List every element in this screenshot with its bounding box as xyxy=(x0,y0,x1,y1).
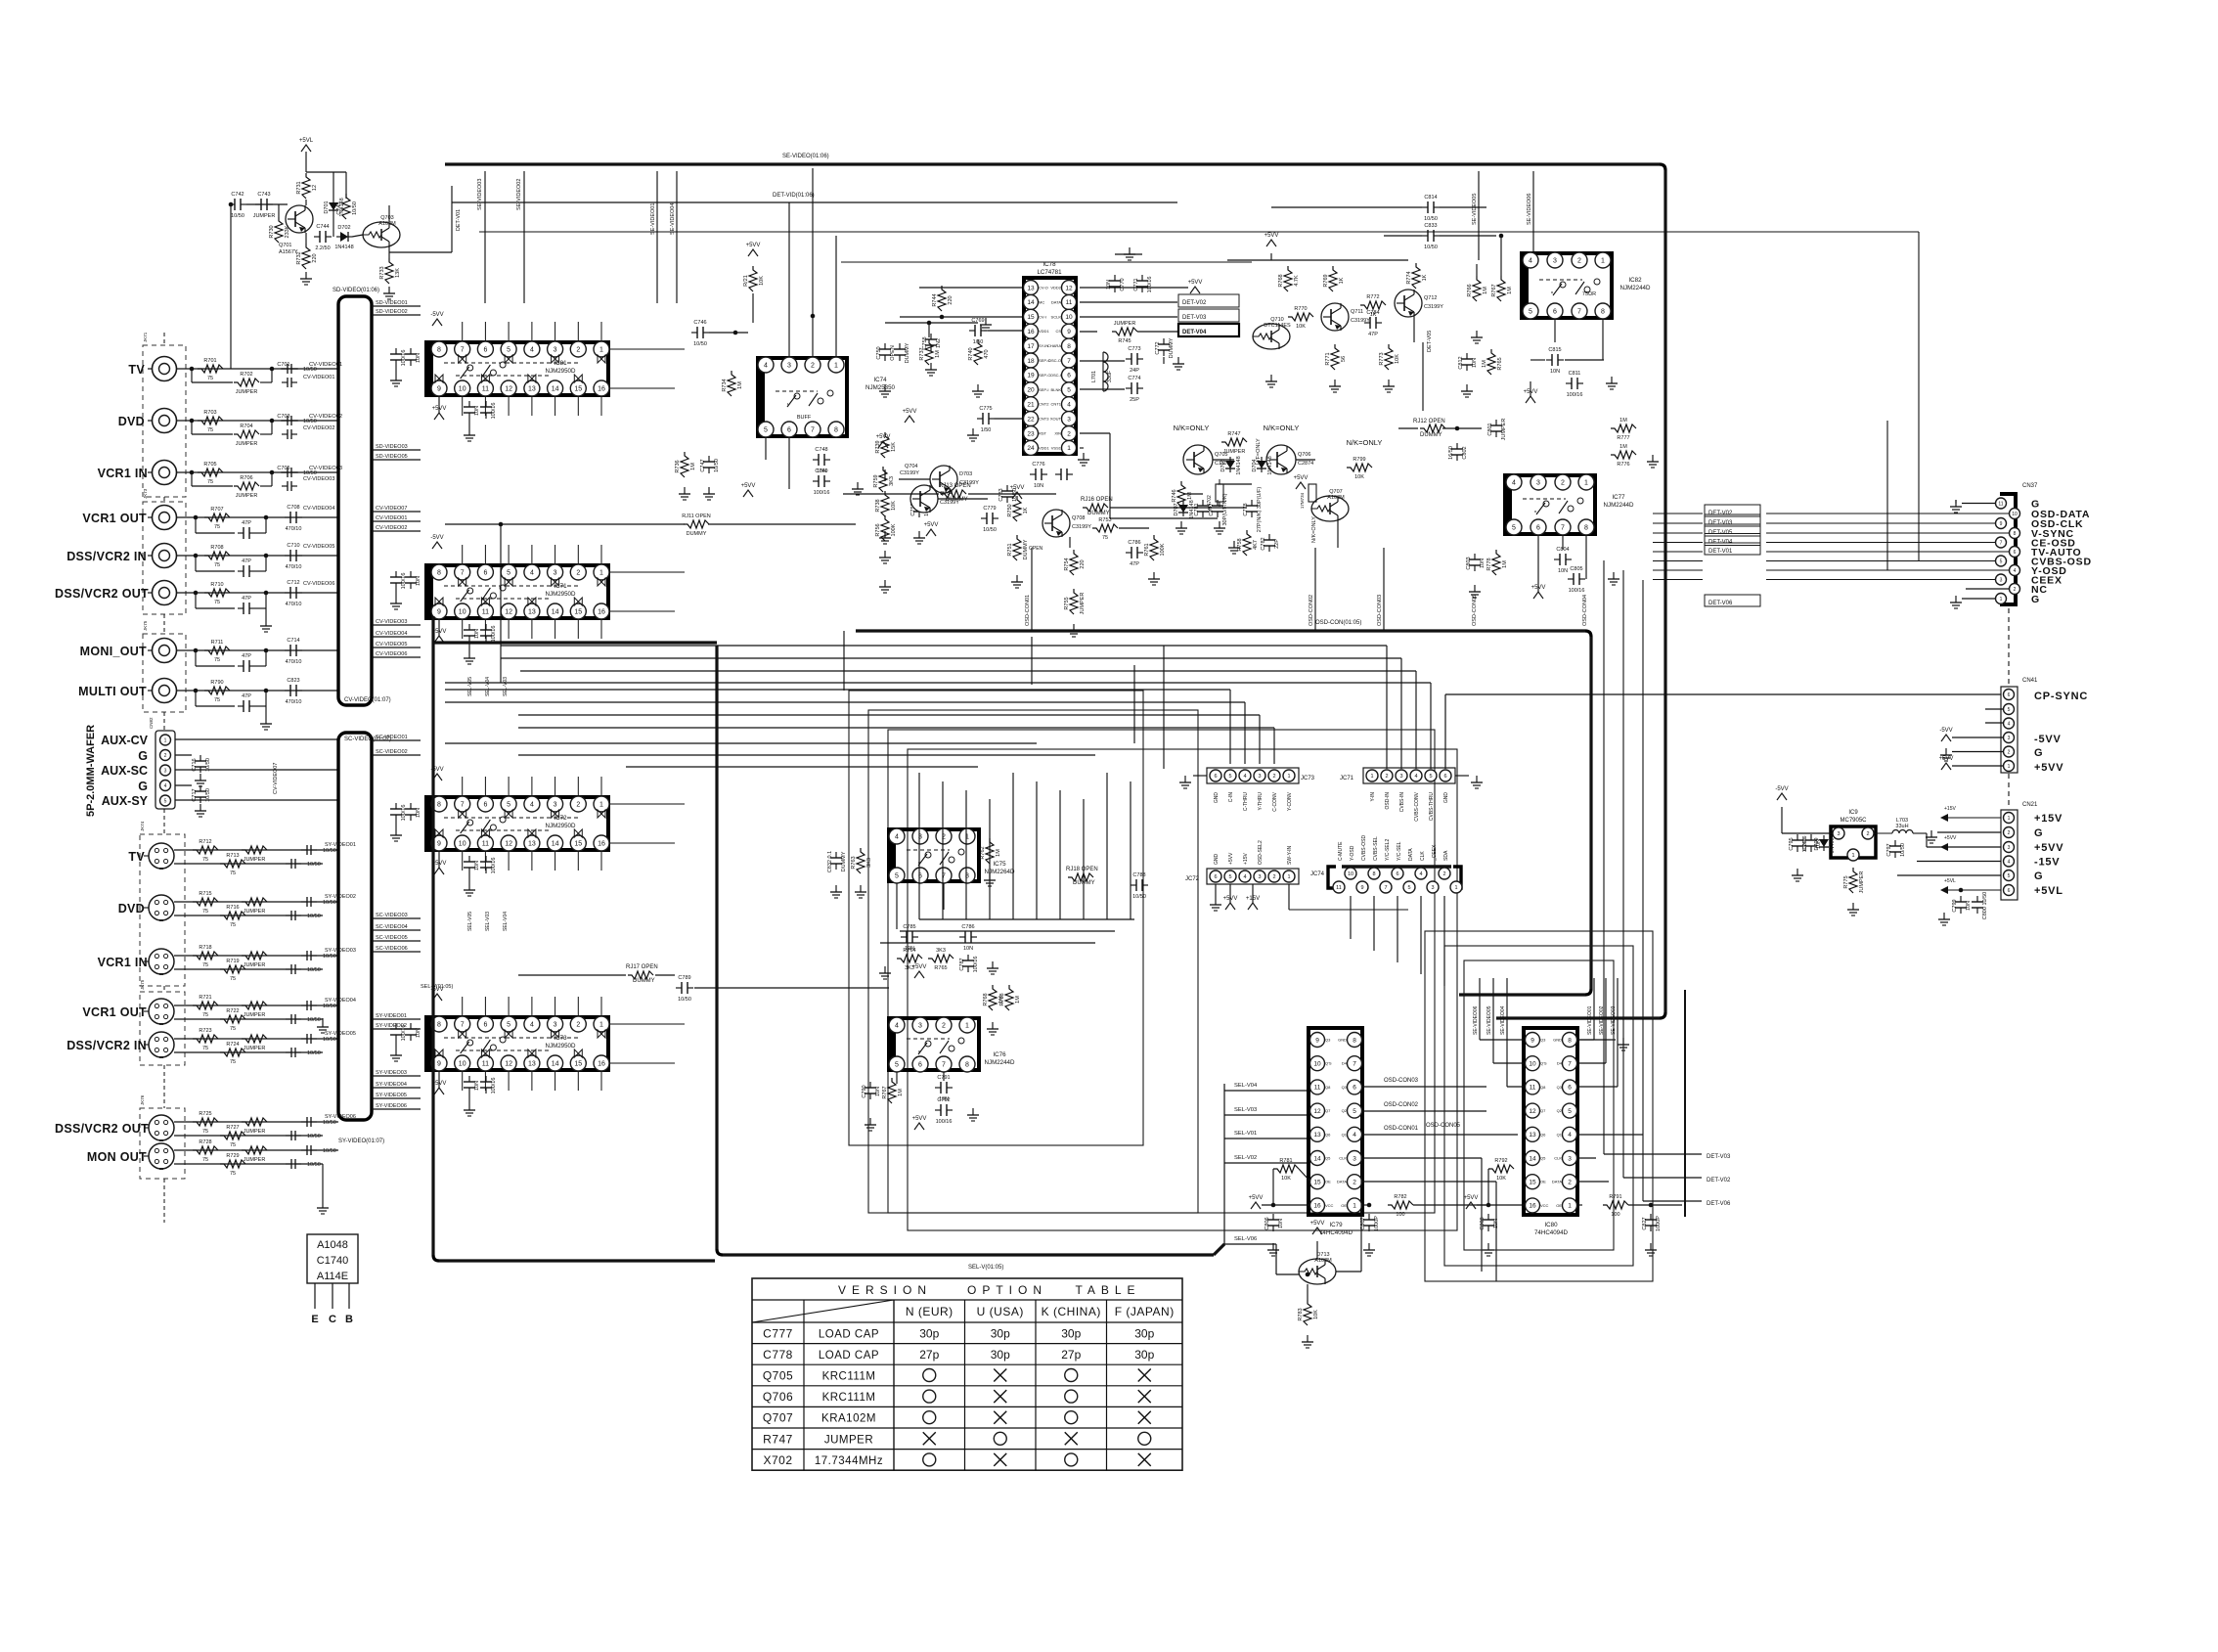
resistor R754 220 xyxy=(1070,550,1078,575)
resistor R778 1M xyxy=(1492,550,1500,575)
svg-text:GND: GND xyxy=(1214,854,1220,866)
capacitor sdssout-C1 xyxy=(286,1135,291,1137)
svg-text:12: 12 xyxy=(505,841,512,848)
svg-text:AUX-SY: AUX-SY xyxy=(102,794,149,808)
wire wq710a xyxy=(1270,253,1272,260)
svg-text:13: 13 xyxy=(528,609,536,616)
table mark X xyxy=(994,1453,1006,1466)
connector S-video JK75-DSSVCR2IN xyxy=(149,1032,174,1057)
wire wcn21b xyxy=(1937,831,2001,833)
ground G805 xyxy=(1613,572,1615,579)
svg-text:C806: C806 xyxy=(1264,1217,1270,1229)
wire ladder 1 xyxy=(942,781,944,919)
capacitor vcr1out-C xyxy=(285,516,290,518)
junction multi-d2 xyxy=(264,689,269,693)
svg-text:R768: R768 xyxy=(983,993,989,1005)
dashed frame JK75 xyxy=(143,634,186,712)
wire wq707a xyxy=(1337,521,1339,548)
loop rect 80a xyxy=(1425,931,1653,1281)
svg-text:4: 4 xyxy=(530,802,534,809)
transistor Q705 C1116 xyxy=(1183,445,1213,474)
capacitor dssin-C xyxy=(285,555,290,557)
wire h952 xyxy=(900,930,1115,932)
svg-text:10/50: 10/50 xyxy=(323,1037,336,1043)
svg-text:6: 6 xyxy=(2008,888,2011,894)
wire stub SD-VIDEO03 xyxy=(372,449,421,451)
resistor stv-Rj xyxy=(242,846,267,854)
svg-text:17.7344MHz: 17.7344MHz xyxy=(815,1455,883,1467)
svg-text:C769: C769 xyxy=(971,318,984,324)
svg-text:7: 7 xyxy=(1577,309,1581,316)
svg-text:R767: R767 xyxy=(1491,284,1497,296)
svg-text:CVBS-OSD: CVBS-OSD xyxy=(1361,834,1367,861)
svg-text:OSC-O: OSC-O xyxy=(1048,358,1061,363)
capacitor C786 10N xyxy=(959,936,965,938)
svg-text:16: 16 xyxy=(1529,1203,1536,1210)
svg-text:TV: TV xyxy=(128,850,145,864)
wire w78-9b xyxy=(1137,331,1177,333)
wire w77d xyxy=(1585,536,1587,579)
wire wx2 xyxy=(1110,517,1218,519)
capacitor C784 47P xyxy=(1364,322,1370,324)
svg-text:6: 6 xyxy=(2014,550,2017,556)
wire w77c xyxy=(1562,536,1564,550)
svg-text:4: 4 xyxy=(2014,568,2017,574)
junction vcr1out-d2 xyxy=(264,515,269,520)
svg-text:10N: 10N xyxy=(1472,358,1478,368)
diode D707 1N4148 xyxy=(1182,501,1184,516)
capacitor C777 30P xyxy=(1217,500,1219,506)
capacitor stv-C2 xyxy=(301,849,307,851)
wire w79q3 xyxy=(1361,1086,1486,1088)
svg-text:R750: R750 xyxy=(1007,504,1013,516)
svg-text:+5VV: +5VV xyxy=(1249,1195,1264,1201)
svg-text:1: 1 xyxy=(1851,853,1854,859)
svg-text:1: 1 xyxy=(1454,885,1457,891)
wire stub CV-VIDEO06 xyxy=(372,656,421,658)
svg-text:IC76: IC76 xyxy=(993,1051,1006,1058)
capacitor vcr1in-C1 xyxy=(282,471,288,473)
wire wcn41a xyxy=(1952,737,2003,738)
wire se80 SE-VIDEO03 xyxy=(1617,978,1619,1087)
connector CN82 wafer xyxy=(155,731,175,809)
wire w79oe4 xyxy=(1413,1204,1486,1206)
wire DET-VID bus xyxy=(452,201,1177,203)
pin 1 IC71 xyxy=(594,564,609,580)
svg-text:JUMPER: JUMPER xyxy=(244,1046,266,1051)
svg-text:75: 75 xyxy=(202,857,208,863)
pin 4 IC76 xyxy=(889,1017,905,1033)
svg-text:MON OUT: MON OUT xyxy=(87,1150,147,1164)
junction dssout-d1 xyxy=(194,591,199,596)
svg-text:C785: C785 xyxy=(903,924,915,930)
svg-text:2: 2 xyxy=(576,570,580,577)
svg-text:SD-VIDEO03: SD-VIDEO03 xyxy=(376,444,408,450)
svg-text:SC-VIDEO01: SC-VIDEO01 xyxy=(376,735,408,740)
svg-text:SY-VIDEO03: SY-VIDEO03 xyxy=(325,948,356,954)
svg-text:SE-VIDEO06: SE-VIDEO06 xyxy=(1527,194,1532,225)
pin 8 JC74 xyxy=(1368,868,1380,879)
svg-text:5: 5 xyxy=(895,1062,899,1069)
svg-text:10K: 10K xyxy=(759,276,765,286)
svg-text:2: 2 xyxy=(1866,831,1869,837)
svg-text:7: 7 xyxy=(1353,1061,1356,1068)
pin 7 IC82 xyxy=(1572,303,1587,319)
svg-text:Q712: Q712 xyxy=(1424,295,1437,301)
svg-text:G: G xyxy=(2034,871,2043,882)
svg-text:1: 1 xyxy=(965,1023,969,1030)
pin 6 IC74 xyxy=(781,422,797,437)
table mark X xyxy=(1138,1390,1151,1403)
svg-text:JUMPER: JUMPER xyxy=(253,213,276,219)
wire w74q xyxy=(884,469,886,481)
svg-text:KRC111M: KRC111M xyxy=(822,1392,876,1404)
wire hnet2 y705 xyxy=(445,689,1230,691)
svg-text:1: 1 xyxy=(599,1022,603,1029)
wire vdet6 feed xyxy=(1642,580,1644,1201)
svg-text:1M: 1M xyxy=(1015,996,1021,1004)
wire w77b xyxy=(1537,536,1539,592)
svg-text:JUMPER: JUMPER xyxy=(236,389,258,395)
pin 3 CN82 xyxy=(160,765,171,776)
svg-text:25P: 25P xyxy=(1130,397,1139,403)
svg-text:3: 3 xyxy=(1837,831,1840,837)
resistor R755 JUMPER xyxy=(1070,589,1078,614)
wire wq708a xyxy=(1069,537,1071,548)
svg-text:R755: R755 xyxy=(1064,597,1070,609)
svg-text:5: 5 xyxy=(895,873,899,880)
pin 4 JC71 xyxy=(1410,770,1422,781)
svg-text:R730: R730 xyxy=(269,225,275,238)
svg-text:SE-VIDEO05: SE-VIDEO05 xyxy=(1472,194,1478,225)
svg-text:R738: R738 xyxy=(875,499,881,512)
svg-text:1000P: 1000P xyxy=(1656,1216,1662,1231)
svg-text:4.7K: 4.7K xyxy=(1294,275,1300,287)
svg-text:1: 1 xyxy=(1370,774,1373,780)
wire wd707 xyxy=(1183,493,1203,495)
pin 5 CN37 xyxy=(1996,556,2007,566)
svg-text:R758: R758 xyxy=(1237,538,1243,551)
svg-text:11: 11 xyxy=(1530,1085,1536,1092)
svg-text:Q'S: Q'S xyxy=(1325,1061,1332,1066)
svg-text:+5VV: +5VV xyxy=(2034,842,2063,854)
svg-text:DET-V03: DET-V03 xyxy=(1708,520,1733,526)
svg-text:C-THRU: C-THRU xyxy=(1243,792,1249,812)
wire wkey2 xyxy=(835,236,837,357)
wire sel SEL-V03 xyxy=(1224,1114,1310,1116)
svg-text:DUMMY: DUMMY xyxy=(633,978,655,984)
wire cn37 feed CEEX xyxy=(1653,579,1703,581)
svg-text:75: 75 xyxy=(230,1142,236,1148)
svg-text:DET-V01: DET-V01 xyxy=(456,209,462,231)
svg-text:+15V: +15V xyxy=(2034,813,2063,825)
pin 8 IC81 xyxy=(431,341,447,357)
wire cn37 feed TV-AUTO xyxy=(1653,551,1703,553)
wire wx1 xyxy=(1218,483,1252,485)
resistor R736 1M xyxy=(681,452,688,477)
svg-text:NJM2950D: NJM2950D xyxy=(546,1043,576,1049)
wire wcn41nc1 xyxy=(1985,708,2003,710)
svg-text:100/16: 100/16 xyxy=(1147,277,1153,293)
svg-text:10/50: 10/50 xyxy=(1424,245,1438,250)
pin 9 IC81 xyxy=(431,380,447,396)
svg-text:LC74781: LC74781 xyxy=(1037,269,1062,276)
wire moni-main xyxy=(177,649,339,651)
svg-text:C832 0.1: C832 0.1 xyxy=(827,851,833,872)
svg-text:R768: R768 xyxy=(1278,274,1284,287)
pin 9 CN37 xyxy=(1996,518,2007,529)
svg-text:N (EUR): N (EUR) xyxy=(906,1305,954,1318)
shield dashed line xyxy=(163,333,165,345)
svg-text:DATA: DATA xyxy=(1051,299,1061,304)
wire ladder 7 xyxy=(1083,799,1085,919)
svg-text:CN41: CN41 xyxy=(2022,678,2038,684)
table mark O xyxy=(1138,1432,1151,1445)
svg-text:D701: D701 xyxy=(324,201,330,213)
svg-text:Q1: Q1 xyxy=(1557,1132,1563,1137)
table mark X xyxy=(1138,1369,1151,1382)
net SW-Y-IN wire xyxy=(1289,909,1408,911)
svg-text:R754: R754 xyxy=(1064,558,1070,570)
capacitor moni-Cp xyxy=(238,665,244,667)
pin 1 IC77 xyxy=(1578,474,1594,490)
svg-text:13: 13 xyxy=(528,841,536,848)
svg-text:8: 8 xyxy=(437,802,441,809)
svg-text:VCR1 OUT: VCR1 OUT xyxy=(82,1005,147,1019)
ground G777 xyxy=(1233,541,1235,548)
wire dssin-s1 xyxy=(195,556,197,571)
wire hnet y660 xyxy=(501,645,1387,647)
svg-text:SC-VIDEO02: SC-VIDEO02 xyxy=(376,749,408,755)
svg-text:10N: 10N xyxy=(1966,901,1972,911)
svg-text:DET-V04: DET-V04 xyxy=(1182,330,1207,335)
resistor svout-Rj xyxy=(242,1002,267,1009)
wire dvd-sub3 xyxy=(260,433,272,435)
wire tv-sub4 xyxy=(271,369,273,382)
wire wvert1930 xyxy=(1886,421,1888,570)
svg-text:3: 3 xyxy=(1399,774,1402,780)
wire wtop-d xyxy=(306,171,346,173)
ground Gcn37a xyxy=(1955,500,1957,507)
svg-text:6: 6 xyxy=(1443,774,1446,780)
svg-text:TABLE: TABLE xyxy=(1075,1283,1140,1297)
pin 7 IC72 xyxy=(455,796,470,812)
svg-text:LOAD CAP: LOAD CAP xyxy=(819,1328,879,1340)
transistor Q704 C3199Y xyxy=(910,485,938,513)
svg-text:3: 3 xyxy=(1553,258,1557,265)
svg-text:SE-VIDEO01: SE-VIDEO01 xyxy=(1587,1005,1593,1035)
svg-text:C827: C827 xyxy=(1642,1217,1648,1229)
wire w75c xyxy=(1110,507,1247,509)
svg-text:12: 12 xyxy=(505,1061,512,1068)
svg-text:NJM2950D: NJM2950D xyxy=(546,591,576,598)
svg-text:1M: 1M xyxy=(1502,560,1508,568)
wire vx1055 xyxy=(1031,637,1033,685)
wire ladder 0 xyxy=(918,773,920,919)
svg-text:C714: C714 xyxy=(287,638,299,644)
svg-text:C770: C770 xyxy=(1120,278,1126,290)
wire wdetv01 xyxy=(451,186,453,252)
wire stub SY-VIDEO04 xyxy=(372,1087,421,1089)
svg-text:R753: R753 xyxy=(1098,517,1111,523)
table mark X xyxy=(1138,1453,1151,1466)
svg-text:CV-VIDEO(01:07): CV-VIDEO(01:07) xyxy=(344,697,391,703)
pin 4 IC78 xyxy=(1062,397,1077,412)
wire wq704c xyxy=(938,498,988,500)
wire w80oe2 xyxy=(1487,1169,1489,1205)
wire cn37 wire V-SYNC xyxy=(1766,532,2009,534)
ground G827 xyxy=(1650,1243,1652,1250)
svg-text:C812: C812 xyxy=(1458,356,1464,369)
pin 12 IC81 xyxy=(501,380,516,396)
svg-text:CNT3: CNT3 xyxy=(1039,417,1049,422)
pin 8 CN37 xyxy=(2010,528,2020,539)
power +5VV p5vvq710 xyxy=(1266,240,1276,246)
svg-text:SEL-V01: SEL-V01 xyxy=(1234,1131,1257,1137)
svg-text:5: 5 xyxy=(1228,774,1231,780)
resistor R773 10K xyxy=(1385,344,1393,370)
wire wvert1962 xyxy=(1918,232,1920,560)
svg-text:6: 6 xyxy=(1396,871,1398,877)
svg-text:R727: R727 xyxy=(226,1125,239,1131)
pin 16 IC73 xyxy=(594,1055,609,1071)
wire wgsv1 xyxy=(322,1018,324,1020)
svg-text:75: 75 xyxy=(202,962,208,968)
svg-text:10K: 10K xyxy=(891,501,897,511)
capacitor C782 22P xyxy=(1268,534,1270,540)
svg-text:OSD-SEL2: OSD-SEL2 xyxy=(1258,840,1264,865)
wire w76a xyxy=(518,974,626,976)
svg-text:7: 7 xyxy=(461,1022,465,1029)
wire aux-sy xyxy=(175,799,338,801)
svg-text:R791: R791 xyxy=(1609,1194,1621,1200)
svg-text:47P: 47P xyxy=(242,558,251,564)
svg-text:Q704: Q704 xyxy=(905,464,917,469)
svg-text:C823: C823 xyxy=(287,678,299,684)
bus OSD-CON(01:05) xyxy=(856,629,1585,632)
svg-text:17M734: 17M734 xyxy=(1300,492,1305,509)
pin 3 CN21 xyxy=(2004,842,2015,853)
svg-text:R719: R719 xyxy=(226,959,239,964)
pin 7 IC80 xyxy=(1563,1056,1577,1071)
svg-text:OPTION: OPTION xyxy=(967,1283,1047,1297)
wire smon-c xyxy=(174,1163,323,1165)
svg-text:SD-VIDEO01: SD-VIDEO01 xyxy=(376,300,408,306)
svg-text:+5VV: +5VV xyxy=(1944,835,1957,841)
svg-text:+5VV: +5VV xyxy=(903,409,917,415)
connector S-video JK74-DVD xyxy=(149,895,174,920)
svg-text:CV-VIDEO05: CV-VIDEO05 xyxy=(376,642,407,647)
resistor sdssout-R1 xyxy=(193,1118,218,1126)
svg-text:OSD-CON03: OSD-CON03 xyxy=(1377,595,1383,626)
svg-text:12: 12 xyxy=(505,609,512,616)
svg-text:Q705: Q705 xyxy=(763,1369,793,1383)
wire wd702q703 xyxy=(352,235,363,237)
wire w78xin xyxy=(1080,432,1110,434)
svg-text:1M: 1M xyxy=(996,849,1001,857)
wire vdrop x1433 xyxy=(1400,658,1402,769)
ground G770t xyxy=(1129,247,1131,254)
svg-text:C776: C776 xyxy=(1032,462,1044,468)
svg-text:10/50: 10/50 xyxy=(323,848,336,854)
pin 6 IC82 xyxy=(1547,303,1563,319)
svg-text:Q2: Q2 xyxy=(1557,1108,1563,1113)
pin stubs ICs xyxy=(462,777,464,796)
ground Gr733 xyxy=(388,287,390,293)
svg-text:CV-VIDEO06: CV-VIDEO06 xyxy=(376,651,407,657)
pin 10 JC74 xyxy=(1345,868,1356,879)
pin 13 IC73 xyxy=(524,1055,540,1071)
switch elements inside IC71 xyxy=(444,585,579,587)
svg-text:JUMPER: JUMPER xyxy=(244,1012,266,1018)
wire w78top xyxy=(1080,287,1188,289)
capacitor C806 10N xyxy=(1272,1214,1274,1220)
svg-text:10N: 10N xyxy=(1480,558,1486,568)
resistor dssout-R xyxy=(204,589,230,597)
diode D701 1N4148 xyxy=(333,199,334,214)
resistor R758b 1M xyxy=(1005,985,1013,1010)
wire wcn37nc xyxy=(1966,588,2009,590)
svg-text:8: 8 xyxy=(1601,309,1605,316)
svg-text:1: 1 xyxy=(1601,258,1605,265)
pin 3 IC73 xyxy=(548,1016,563,1032)
svg-text:MC7905C: MC7905C xyxy=(1840,818,1867,824)
svg-text:C746: C746 xyxy=(693,320,706,326)
wire vcr1out-s3 xyxy=(255,532,266,534)
dashed link CN41-CN21 xyxy=(2008,774,2010,808)
svg-text:OE: OE xyxy=(1325,1180,1331,1184)
svg-text:B: B xyxy=(345,1314,353,1325)
resistor svout-R1 xyxy=(193,1002,218,1009)
pin 5 IC76 xyxy=(889,1056,905,1072)
svg-text:R710: R710 xyxy=(210,582,223,588)
pin 2 IC74 xyxy=(805,357,821,373)
svg-text:19: 19 xyxy=(1027,373,1035,380)
wire wq705a xyxy=(1213,459,1234,461)
svg-text:-5VV: -5VV xyxy=(1775,786,1788,792)
wire hnet2 y718 xyxy=(445,701,1245,703)
svg-text:NJM2244D: NJM2244D xyxy=(1604,502,1634,509)
svg-text:SY-VIDEO06: SY-VIDEO06 xyxy=(376,1103,407,1109)
capacitor C744 2.2/50 xyxy=(314,236,320,238)
wire w76p xyxy=(896,1072,898,1084)
svg-text:1: 1 xyxy=(2008,816,2011,822)
pin 7 IC79 xyxy=(1348,1056,1362,1071)
capacitor C748 10N xyxy=(813,459,819,461)
svg-text:R722: R722 xyxy=(226,1008,239,1014)
pin 2 IC72 xyxy=(570,796,586,812)
pin 3 JC72 xyxy=(1254,871,1265,882)
svg-text:+5VV: +5VV xyxy=(924,522,939,528)
pin 7 CN37 xyxy=(1996,537,2007,548)
wire w77a xyxy=(1442,427,1482,429)
capacitor IC73-Cc xyxy=(468,1076,470,1082)
svg-text:DET-V02: DET-V02 xyxy=(1708,511,1733,516)
wire wq703c xyxy=(388,205,390,222)
ground G812 xyxy=(1466,384,1468,391)
svg-text:A114E: A114E xyxy=(317,1271,348,1282)
wire w78-15 xyxy=(900,316,1022,318)
svg-text:SC-VIDEO05: SC-VIDEO05 xyxy=(376,935,408,941)
svg-text:10/50: 10/50 xyxy=(323,954,336,960)
svg-text:22P: 22P xyxy=(1274,539,1280,549)
svg-text:SW-Y-IN: SW-Y-IN xyxy=(1287,845,1293,865)
svg-text:CNT2: CNT2 xyxy=(1039,402,1049,407)
svg-text:1M: 1M xyxy=(898,1089,904,1096)
pin 4 IC75 xyxy=(889,828,905,844)
svg-text:JC72: JC72 xyxy=(1185,876,1200,882)
svg-text:SY-VIDEO01: SY-VIDEO01 xyxy=(325,842,356,848)
